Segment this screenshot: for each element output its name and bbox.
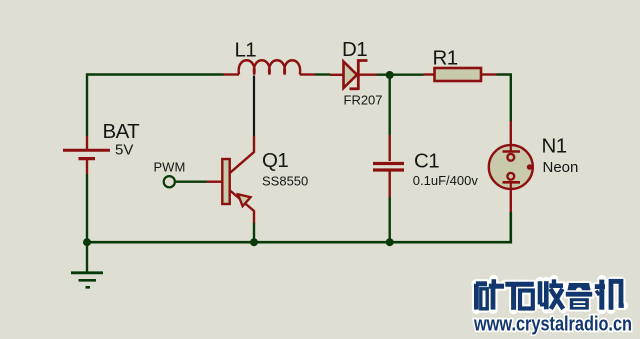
svg-text:Neon: Neon [543, 159, 579, 176]
battery BAT pin top [86, 136, 88, 149]
svg-text:5V: 5V [115, 142, 133, 159]
wire ground stem [86, 242, 88, 271]
wire L1 to D1 [315, 73, 330, 75]
svg-text:FR207: FR207 [344, 92, 383, 107]
junction Q1 emitter rail [250, 238, 258, 246]
svg-text:0.1uF/400v: 0.1uF/400v [413, 173, 479, 188]
transistor Q1 base pin [207, 180, 222, 182]
svg-text:L1: L1 [235, 38, 257, 61]
wire R1 to N1 top [497, 75, 511, 122]
neon lamp N1 gas dot [527, 164, 533, 170]
battery BAT pin bottom [86, 160, 88, 174]
svg-text:PWM: PWM [154, 160, 186, 175]
svg-text:R1: R1 [433, 47, 458, 70]
svg-text:N1: N1 [542, 135, 567, 158]
svg-text:BAT: BAT [103, 120, 141, 143]
junction battery-ground rail [83, 238, 91, 246]
svg-text:SS8550: SS8550 [262, 174, 308, 189]
transistor Q1 emitter arrow [238, 194, 251, 206]
wire D1 to node VOUT [377, 73, 424, 75]
svg-text:Q1: Q1 [262, 149, 288, 172]
svg-text:D1: D1 [342, 38, 367, 61]
diode D1 [330, 61, 377, 91]
resistor R1 [424, 68, 497, 81]
watermark logo text (kuang shi shou yin ji) [476, 279, 624, 310]
ground symbol [71, 273, 103, 288]
wire PWM terminal to Q1 base [176, 180, 207, 182]
neon lamp N1 top electrode [503, 146, 521, 161]
wire N1 bottom to ground rail [87, 212, 511, 242]
wire C1 branch green top [389, 77, 391, 135]
neon lamp N1 pin bottom [510, 189, 512, 212]
transistor Q1 emitter pin with arrow [230, 191, 254, 224]
transistor Q1 base bar [222, 159, 229, 204]
inductor L1 [224, 60, 316, 74]
wire Q1 emitter to rail [253, 223, 255, 242]
battery BAT plate negative [79, 157, 96, 160]
wire C1 branch green bottom [389, 197, 391, 242]
neon lamp N1 body [489, 145, 533, 189]
neon lamp N1 bottom electrode [503, 173, 521, 189]
junction C1 rail [386, 238, 394, 246]
battery BAT plate positive [63, 149, 110, 152]
junction node VOUT top [386, 71, 394, 79]
terminal PWM [164, 176, 175, 187]
capacitor C1 [373, 135, 404, 197]
neon lamp N1 pin top [510, 121, 512, 146]
svg-text:C1: C1 [414, 150, 439, 173]
wire battery negative to ground rail [86, 174, 88, 242]
svg-text:www.crystalradio.cn: www.crystalradio.cn [473, 314, 632, 336]
wire black L1 tap to Q1 collector [253, 76, 255, 137]
wire top rail green (battery+ to L1) [87, 75, 224, 137]
transistor Q1 collector pin [230, 136, 254, 173]
watermark logo halo [476, 279, 624, 311]
